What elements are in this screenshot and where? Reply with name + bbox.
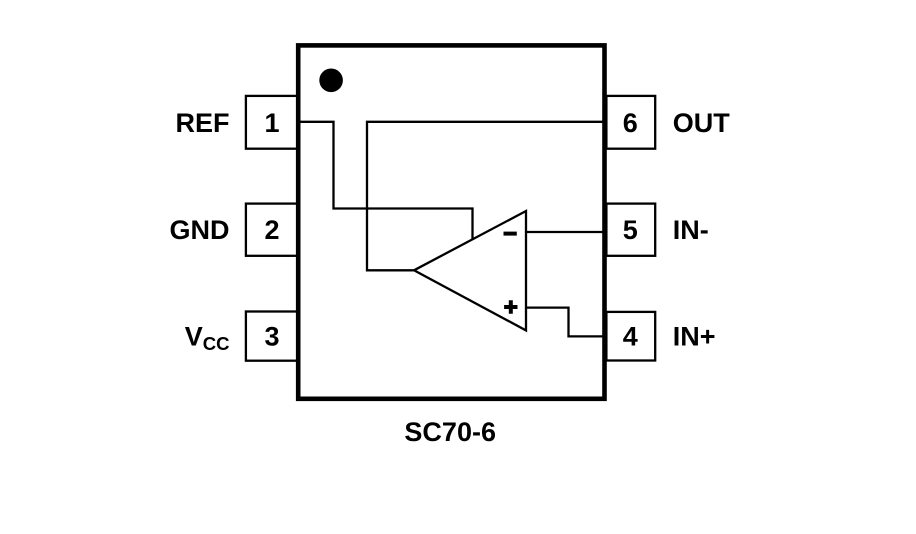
op-amp U1 (comparator triangle, output pointing left) [414, 211, 526, 330]
svg-text:IN-: IN- [673, 215, 709, 245]
svg-text:3: 3 [264, 321, 279, 351]
svg-text:4: 4 [623, 321, 638, 351]
svg-text:OUT: OUT [673, 108, 731, 138]
pin 1 box [246, 96, 298, 149]
wire REF (pin 1 to comparator) [298, 122, 473, 240]
wire OUT (pin 6 to comparator output apex) [367, 122, 604, 270]
IC package body U1 (SC70-6 outline) [298, 45, 604, 398]
non-inverting input plus sign [504, 300, 517, 314]
pin-1 indicator dot [319, 69, 343, 93]
pin 2 box [246, 204, 298, 256]
wire IN+ (comparator non-inverting input to pin 4) [527, 308, 604, 337]
svg-text:REF: REF [176, 108, 230, 138]
pin 3 box [246, 312, 298, 361]
pin 5 box [606, 204, 655, 256]
svg-text:1: 1 [264, 108, 279, 138]
pin 4 box [606, 312, 655, 361]
svg-text:6: 6 [623, 108, 638, 138]
svg-text:SC70-6: SC70-6 [404, 417, 496, 447]
svg-text:5: 5 [623, 215, 638, 245]
svg-text:2: 2 [264, 215, 279, 245]
inverting input minus sign [504, 232, 517, 236]
svg-text:VCC: VCC [185, 321, 230, 354]
pin 6 box [606, 96, 655, 149]
wire IN- (comparator inverting input to pin 5) [527, 231, 604, 233]
svg-text:GND: GND [170, 215, 230, 245]
svg-text:IN+: IN+ [673, 321, 716, 351]
